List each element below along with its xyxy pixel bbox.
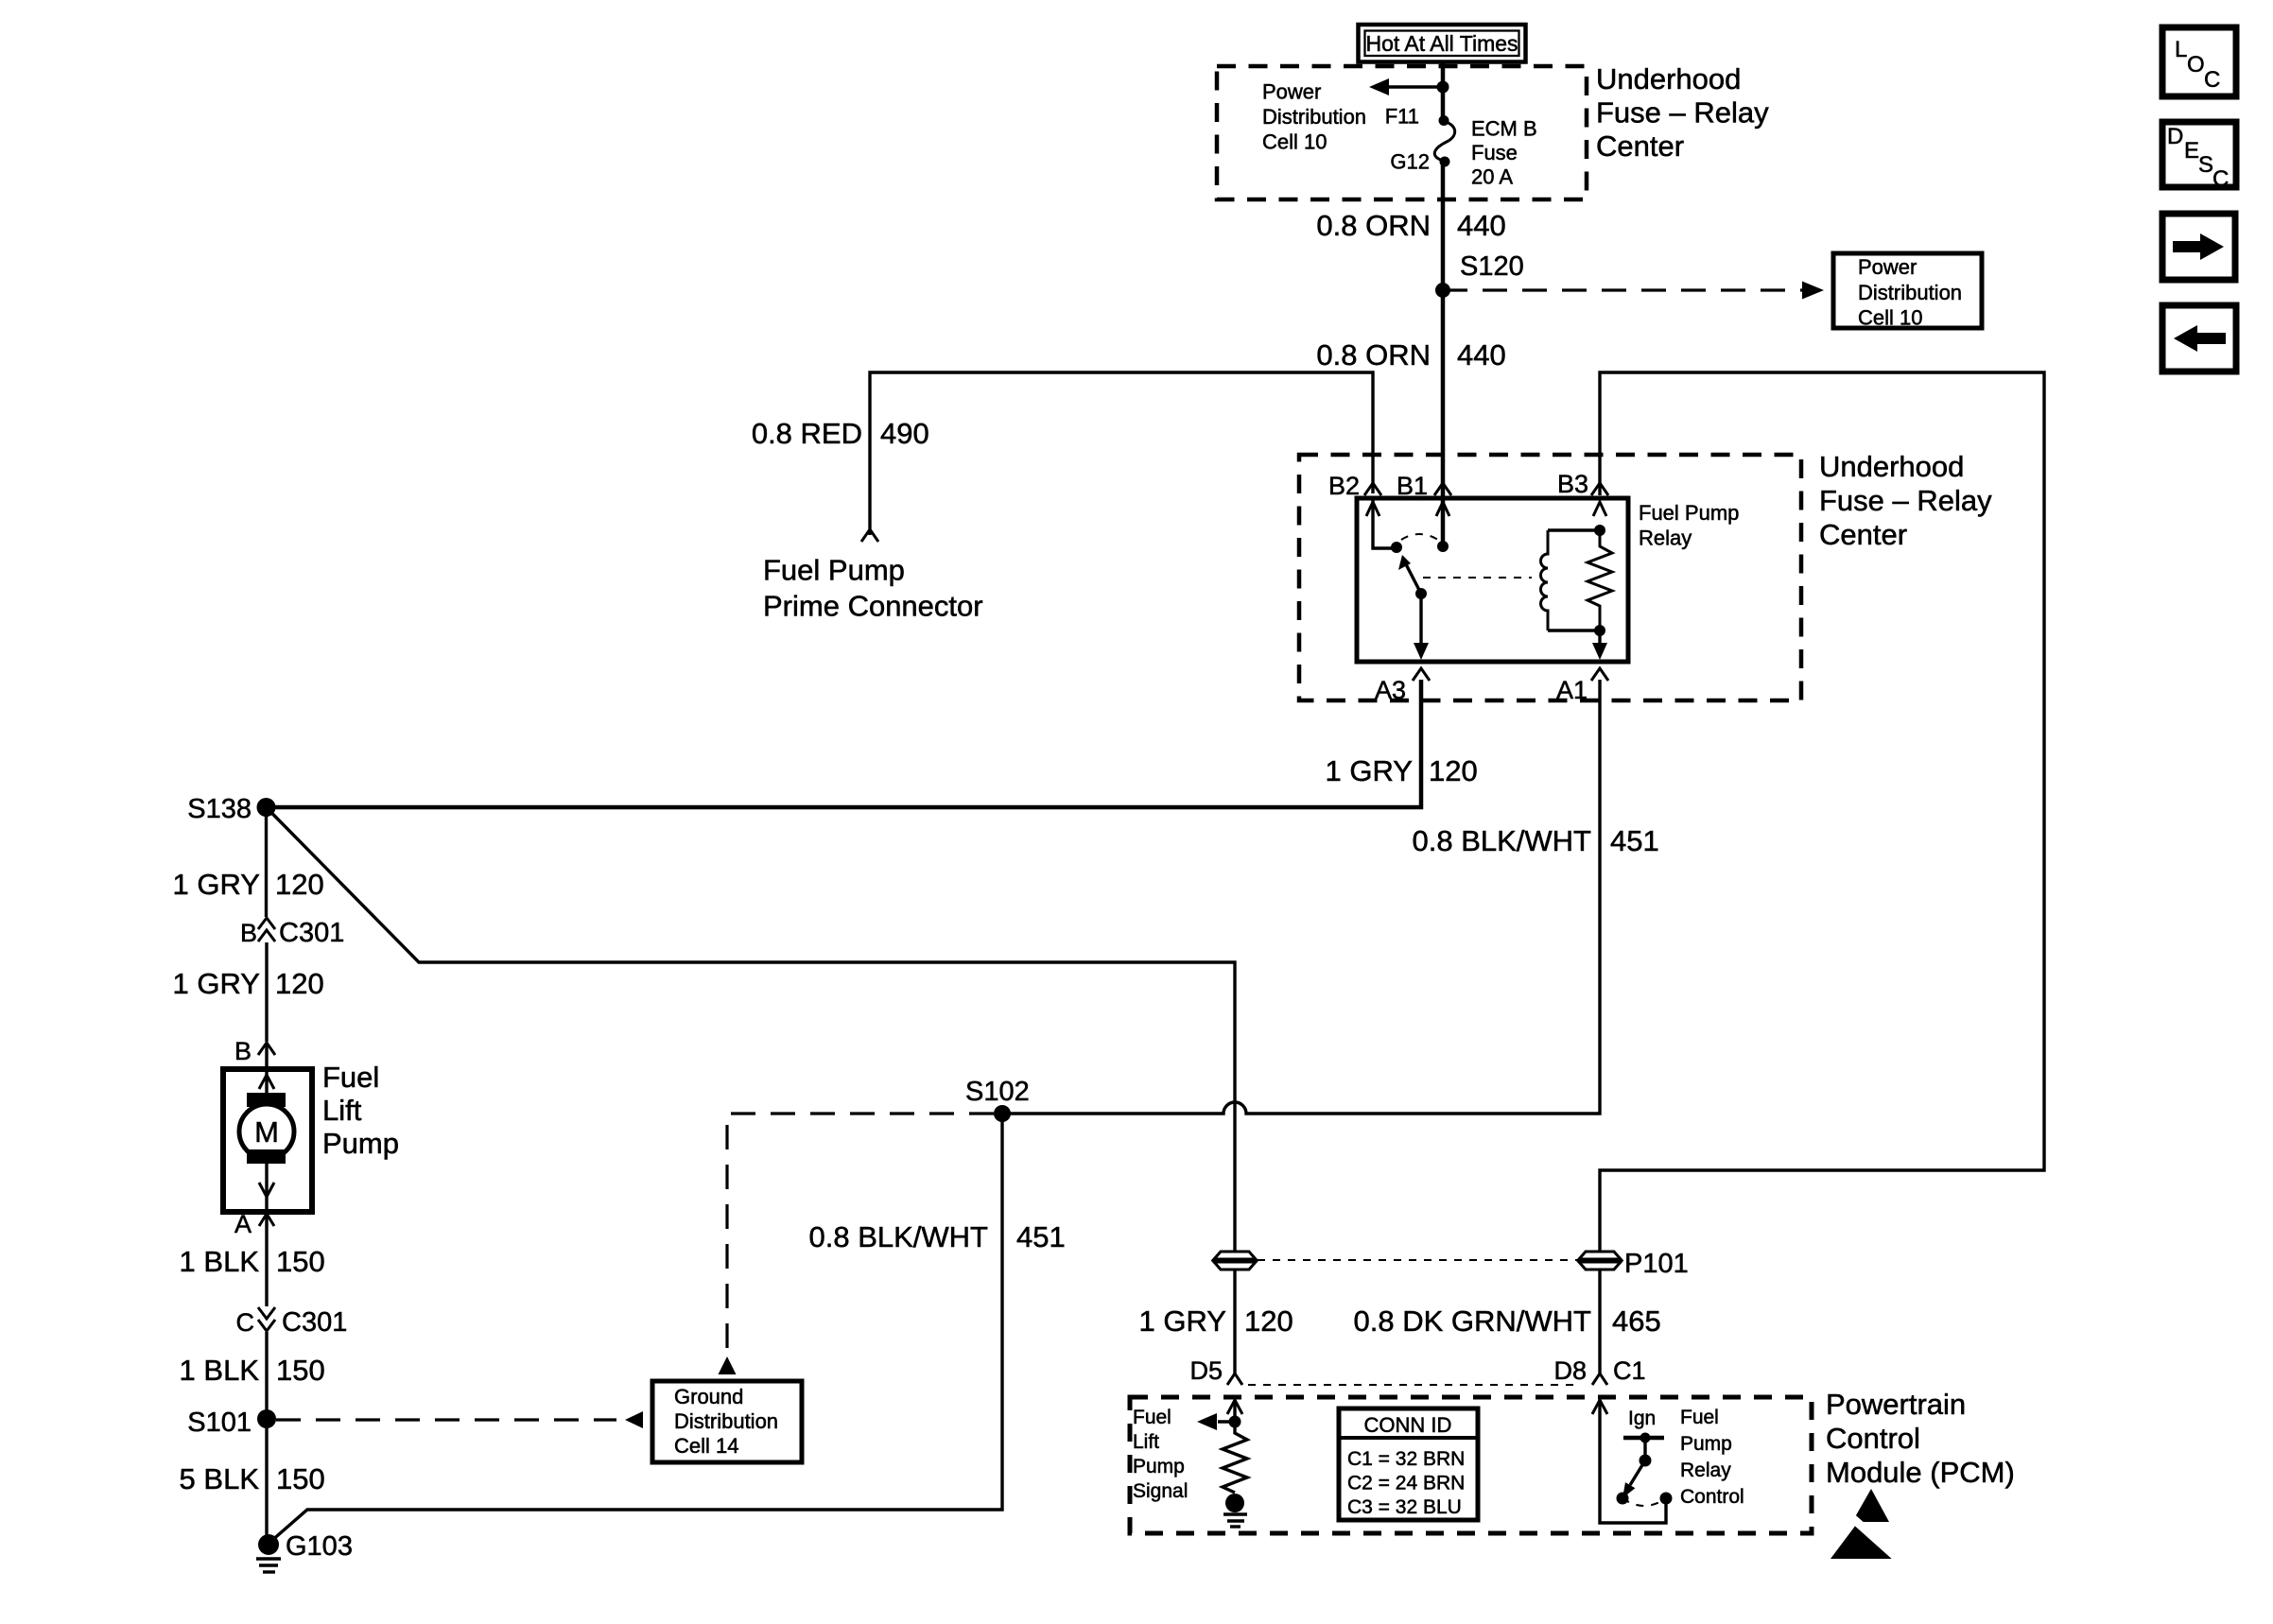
svg-text:120: 120 [275,868,324,901]
svg-text:Fuse: Fuse [1471,141,1518,164]
svg-text:150: 150 [276,1354,325,1387]
svg-text:0.8 ORN: 0.8 ORN [1316,338,1431,371]
svg-text:Power: Power [1262,80,1321,104]
svg-text:Power: Power [1858,255,1917,279]
svg-text:Fuel: Fuel [1680,1407,1719,1428]
svg-text:D8: D8 [1553,1356,1587,1385]
svg-text:C3 = 32 BLU: C3 = 32 BLU [1347,1496,1462,1518]
svg-text:Fuel Pump: Fuel Pump [1639,501,1739,525]
svg-text:Fuel: Fuel [322,1061,379,1094]
svg-text:Lift: Lift [1133,1431,1159,1453]
svg-text:G12: G12 [1390,150,1430,174]
svg-text:Fuel Pump: Fuel Pump [763,554,905,587]
svg-text:Ground: Ground [674,1385,743,1408]
svg-text:1 GRY: 1 GRY [1139,1304,1226,1338]
svg-text:C: C [2204,67,2220,93]
svg-text:B1: B1 [1397,472,1428,500]
svg-text:Relay: Relay [1680,1460,1731,1481]
svg-text:Pump: Pump [1133,1456,1185,1477]
svg-text:0.8 RED: 0.8 RED [752,417,862,450]
svg-text:E: E [2184,138,2199,164]
svg-text:Prime Connector: Prime Connector [763,590,983,623]
svg-text:Distribution: Distribution [1858,281,1962,304]
svg-text:465: 465 [1612,1304,1661,1338]
svg-text:1 BLK: 1 BLK [180,1245,260,1278]
svg-text:A: A [234,1210,252,1238]
svg-text:Distribution: Distribution [674,1409,778,1433]
svg-text:ECM B: ECM B [1471,117,1537,141]
svg-text:Signal: Signal [1133,1480,1188,1502]
svg-text:C1 = 32 BRN: C1 = 32 BRN [1347,1448,1465,1470]
svg-text:C1: C1 [1613,1356,1646,1385]
svg-text:490: 490 [880,417,929,450]
svg-text:0.8 BLK/WHT: 0.8 BLK/WHT [809,1220,989,1253]
svg-text:Center: Center [1596,130,1684,163]
svg-text:C301: C301 [279,918,344,948]
svg-text:440: 440 [1457,209,1506,242]
svg-text:D5: D5 [1189,1356,1223,1385]
svg-text:B2: B2 [1328,472,1360,500]
svg-text:Fuel: Fuel [1133,1407,1171,1428]
svg-text:Ign: Ign [1628,1408,1656,1429]
svg-text:Underhood: Underhood [1819,450,1964,483]
svg-text:1 BLK: 1 BLK [180,1354,260,1387]
svg-text:S101: S101 [187,1408,252,1438]
svg-text:D: D [2167,124,2183,149]
svg-text:M: M [254,1115,279,1149]
svg-text:Powertrain: Powertrain [1826,1388,1966,1421]
svg-text:C2 = 24 BRN: C2 = 24 BRN [1347,1473,1465,1494]
svg-text:Center: Center [1819,518,1907,551]
svg-text:B3: B3 [1557,470,1588,498]
svg-text:120: 120 [275,967,324,1000]
svg-text:B: B [240,919,257,947]
svg-text:Underhood: Underhood [1596,62,1741,95]
svg-text:S138: S138 [187,794,252,824]
svg-text:Fuse – Relay: Fuse – Relay [1819,484,1992,517]
svg-text:G103: G103 [286,1531,353,1562]
svg-text:451: 451 [1610,824,1659,857]
svg-text:451: 451 [1016,1220,1066,1253]
svg-text:0.8 ORN: 0.8 ORN [1316,209,1431,242]
svg-text:20 A: 20 A [1471,165,1513,189]
svg-text:0.8 DK GRN/WHT: 0.8 DK GRN/WHT [1354,1304,1592,1338]
svg-text:S102: S102 [965,1077,1030,1107]
svg-text:150: 150 [276,1462,325,1495]
svg-text:Cell 10: Cell 10 [1262,130,1327,154]
svg-text:120: 120 [1429,754,1478,787]
svg-text:F11: F11 [1385,105,1419,129]
svg-text:Distribution: Distribution [1262,105,1366,129]
svg-text:440: 440 [1457,338,1506,371]
svg-text:Relay: Relay [1639,527,1692,550]
svg-text:P101: P101 [1624,1249,1689,1279]
svg-text:0.8 BLK/WHT: 0.8 BLK/WHT [1413,824,1592,857]
svg-text:Lift: Lift [322,1094,362,1127]
svg-text:Fuse – Relay: Fuse – Relay [1596,96,1769,130]
svg-text:B: B [234,1037,252,1065]
svg-text:CONN ID: CONN ID [1364,1413,1452,1437]
svg-text:Control: Control [1680,1486,1744,1508]
svg-text:S120: S120 [1460,251,1524,282]
svg-text:A3: A3 [1375,676,1406,704]
svg-text:C: C [2212,166,2229,192]
svg-text:5 BLK: 5 BLK [180,1462,260,1495]
svg-text:1 GRY: 1 GRY [173,967,260,1000]
svg-text:A1: A1 [1556,676,1588,704]
svg-text:Cell 10: Cell 10 [1858,306,1922,330]
svg-text:S: S [2198,152,2213,178]
svg-text:O: O [2187,52,2205,78]
svg-text:Module (PCM): Module (PCM) [1826,1456,2015,1489]
svg-text:Control: Control [1826,1422,1920,1455]
svg-text:C301: C301 [282,1307,347,1338]
svg-text:Pump: Pump [322,1127,399,1160]
svg-text:150: 150 [276,1245,325,1278]
svg-text:1 GRY: 1 GRY [1326,754,1413,787]
svg-text:Hot At All Times: Hot At All Times [1365,31,1518,56]
svg-text:L: L [2175,37,2187,62]
svg-text:1 GRY: 1 GRY [173,868,260,901]
svg-text:Pump: Pump [1680,1433,1732,1455]
svg-text:Cell 14: Cell 14 [674,1434,738,1458]
svg-text:120: 120 [1244,1304,1293,1338]
svg-text:C: C [236,1308,255,1337]
